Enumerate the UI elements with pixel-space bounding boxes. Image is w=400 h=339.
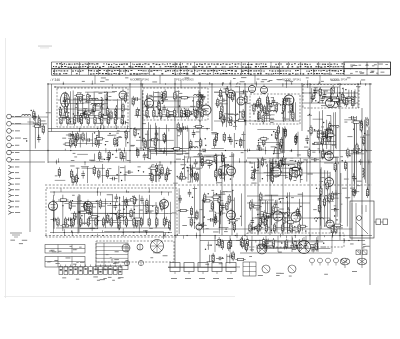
resistor R98 (321, 136, 323, 146)
wire (339, 84, 341, 240)
HT supply bus (48, 83, 372, 85)
tube V13 audio out (84, 200, 93, 211)
capacitor C25 (179, 127, 183, 135)
resistor R2 (33, 125, 43, 127)
resistor R215 (353, 187, 355, 197)
resistor R217 (360, 122, 362, 132)
parts table C (96, 243, 128, 270)
resistor R41 (163, 92, 165, 102)
resistor R76 (258, 97, 260, 107)
value labels (304, 131, 336, 150)
ground tag (10, 233, 22, 237)
capacitor C18 (144, 105, 152, 109)
capacitor C56 (66, 218, 74, 222)
wire (244, 84, 246, 235)
junction dots (78, 170, 171, 181)
wire (159, 75, 161, 84)
capacitor C53 (219, 172, 227, 176)
resistor R175 (251, 206, 261, 208)
capacitor C100 (322, 134, 330, 138)
dashed wire (45, 235, 175, 237)
fuse F2 (363, 250, 368, 255)
capacitor C30 (272, 97, 276, 105)
resistor R254 (148, 217, 150, 227)
plug pin arrows (8, 165, 20, 214)
resistor R155 (228, 194, 230, 204)
capacitor C48 (125, 170, 133, 174)
resistor R276 (177, 177, 187, 179)
resistor R290 (196, 210, 198, 220)
wires (179, 186, 196, 234)
resistor R247 (95, 217, 97, 227)
resistor R147 (132, 218, 142, 220)
resistor R33 (174, 91, 176, 101)
resistor R13 (82, 112, 92, 114)
capacitor C20 (197, 94, 205, 98)
capacitor C19 (201, 94, 205, 102)
tube V19 horiz osc (273, 209, 283, 221)
mains socket P2 (357, 258, 367, 268)
resistor R153 (211, 196, 221, 198)
wires (136, 122, 190, 159)
resistor R102 (328, 127, 330, 137)
resistor R284 (215, 132, 217, 142)
wires (344, 116, 369, 195)
capacitor C42 (323, 151, 331, 155)
resistor R164 (300, 167, 302, 177)
tube V6 detector (237, 95, 245, 105)
junction dots (349, 129, 365, 180)
bus taps (79, 125, 208, 133)
capacitor C99 (228, 134, 232, 142)
resistor R275 (148, 167, 158, 169)
resistor R128 (136, 218, 138, 228)
inductor L11 (162, 95, 164, 104)
resistor R140 (146, 204, 148, 214)
wires (320, 157, 347, 231)
inductor L2 (106, 92, 108, 101)
capacitor C21 (155, 130, 159, 138)
oscillator shield box (96, 241, 174, 262)
value labels (91, 157, 131, 162)
capacitor C22 (180, 126, 188, 130)
resistor R133 (161, 201, 163, 211)
svg-text:MODEL 3P34: MODEL 3P34 (330, 78, 348, 82)
inductor L9 (194, 94, 203, 95)
wire (56, 227, 170, 229)
wire (309, 84, 311, 240)
resistor R212 (232, 251, 234, 261)
resistor R211 (235, 258, 245, 260)
resistor R72 (283, 100, 285, 110)
resistor R192 (318, 203, 320, 213)
bus taps (56, 158, 370, 165)
resistor R252 (133, 217, 135, 227)
resistor R233 (146, 108, 148, 118)
capacitor C92 (348, 116, 356, 120)
wire (211, 84, 213, 131)
resistor R251 (125, 217, 127, 227)
wire (58, 117, 120, 119)
capacitor C38 (313, 88, 317, 96)
capacitor C93 (133, 97, 141, 101)
junction dots (138, 109, 140, 134)
resistor R24 (95, 137, 97, 147)
paper edge left (5, 38, 7, 298)
resistor R77 (284, 97, 286, 107)
capacitor C10 (100, 104, 104, 112)
wire (29, 118, 31, 232)
wire (8, 150, 45, 152)
wire (50, 191, 172, 193)
resistor R142 (69, 200, 71, 210)
fuse F1 (356, 250, 361, 255)
resistor R195 (335, 224, 337, 234)
socket S2 (288, 265, 296, 273)
resistor R159 (211, 201, 213, 211)
wires (257, 127, 298, 159)
resistor R51 (154, 137, 156, 147)
resistor R28 (76, 132, 78, 142)
resistor R172 (261, 157, 263, 167)
resistor R244 (72, 217, 74, 227)
resistor R245 (80, 217, 82, 227)
resistor R180 (259, 217, 261, 227)
resistor R266 (268, 103, 270, 113)
capacitor C31 (251, 103, 259, 107)
wire (221, 152, 223, 235)
value labels (203, 190, 240, 233)
bus taps (92, 232, 333, 239)
resistor R58 (245, 94, 247, 104)
resistor R124 (194, 171, 196, 181)
resistor R95 (337, 95, 339, 105)
wire (11, 116, 48, 118)
svg-text:MODEL SP340: MODEL SP340 (130, 78, 149, 82)
resistor R79 (277, 125, 279, 135)
capacitor C47 (81, 171, 85, 179)
value labels (55, 164, 160, 179)
wires (207, 254, 230, 264)
resistor R104 (310, 125, 312, 135)
resistor R169 (283, 156, 285, 166)
resistor R239 (187, 108, 189, 118)
parts table B (45, 257, 85, 268)
resistor R203 (246, 238, 248, 248)
resistor R178 (297, 225, 307, 227)
inductor L16 (268, 110, 277, 112)
resistor R84 (280, 137, 282, 147)
detector shield box (250, 94, 300, 124)
resistor R136 (71, 218, 73, 228)
capacitor C50 (222, 164, 230, 168)
capacitor C81 (311, 158, 319, 162)
wire (48, 128, 210, 130)
capacitor C66 (217, 211, 225, 215)
resistor R167 (291, 168, 301, 170)
power labels (350, 244, 370, 249)
resistor R191 (328, 193, 330, 203)
wire (214, 120, 300, 122)
resistor R89 (343, 95, 345, 105)
wire (199, 82, 201, 267)
resistor R163 (295, 169, 297, 179)
resistor R42 (197, 109, 207, 111)
capacitor C54 (115, 194, 119, 202)
resistor R186 (260, 192, 262, 202)
value labels (218, 86, 250, 127)
header tiny labels (82, 77, 365, 82)
wire (8, 161, 45, 163)
resistor R15 (94, 104, 104, 106)
capacitor C28 (228, 118, 232, 126)
value labels (182, 188, 202, 226)
value labels (205, 253, 252, 265)
resistor R223 (60, 115, 62, 125)
wire (168, 266, 240, 268)
resistor R227 (87, 115, 89, 125)
tube V12 audio (49, 200, 58, 211)
resistor R258 (257, 223, 259, 233)
resistor R18 (99, 111, 101, 121)
capacitor C2 (37, 135, 41, 143)
tube V16 (227, 209, 236, 220)
capacitor C98 (229, 137, 233, 145)
capacitor C52 (194, 159, 198, 167)
resistor R268 (282, 103, 284, 113)
value labels (62, 130, 122, 149)
resistor R282 (240, 137, 242, 147)
resistor R206 (221, 240, 223, 250)
capacitor C49 (149, 170, 153, 178)
resistor R161 (271, 173, 273, 183)
resistor R47 (190, 140, 192, 150)
resistor R259 (265, 223, 267, 233)
inductor L26 (215, 212, 217, 221)
resistor R152 (218, 194, 220, 204)
resistor R201 (240, 237, 242, 247)
capacitor C82 (290, 244, 298, 248)
capacitor C90 (353, 151, 361, 155)
wire (174, 78, 176, 267)
capacitor C17 (165, 114, 173, 118)
bus taps (65, 147, 367, 155)
junction dots (203, 190, 242, 230)
inductor L21 (330, 93, 332, 102)
wire (55, 86, 340, 88)
capacitor C9 (62, 113, 66, 121)
resistor R240 (194, 108, 196, 118)
resistor R73 (270, 103, 280, 105)
wires (313, 110, 337, 159)
resistor R113 (75, 174, 77, 184)
inductor L6 (115, 109, 117, 118)
resistor R17 (64, 104, 66, 114)
resistor R105 (322, 149, 324, 159)
resistor R85 (284, 128, 286, 138)
resistor R277 (180, 171, 182, 181)
resistor R287 (326, 134, 336, 136)
junction dots (307, 114, 331, 144)
resistor R235 (160, 108, 162, 118)
tube V1 tuner triode (61, 93, 70, 108)
inductor L25 (118, 217, 127, 219)
junction dots (316, 160, 343, 227)
junction dots (26, 110, 32, 142)
capacitor C89 (352, 173, 356, 181)
resistor R120 (190, 168, 192, 178)
inductor L28 (279, 212, 288, 214)
resistor R280 (120, 150, 122, 160)
junction dots (217, 133, 237, 144)
capacitor C32 (265, 111, 269, 119)
resistor R264 (253, 103, 255, 113)
resistor R242 (57, 217, 59, 227)
resistor R59 (226, 86, 228, 96)
wires (155, 165, 192, 183)
resistor R106 (98, 169, 100, 179)
value labels (257, 97, 292, 123)
resistor R149 (58, 199, 68, 201)
resistor R11 (59, 107, 61, 117)
capacitor C73 (250, 227, 258, 231)
resistor R210 (245, 242, 247, 252)
power transformer block (350, 201, 374, 238)
resistor R194 (334, 162, 336, 172)
resistor R21 (74, 94, 84, 96)
wires (312, 87, 355, 106)
resistor R143 (85, 201, 87, 211)
value labels (211, 132, 245, 141)
preset dial P2 (137, 244, 143, 250)
wires (27, 113, 38, 148)
inductor L10 (184, 108, 186, 117)
resistor R205 (285, 239, 287, 249)
resistor R139 (125, 197, 127, 207)
resistor R78 (262, 114, 264, 124)
resistor R65 (222, 114, 224, 124)
wire (319, 150, 321, 240)
inductor L3 (101, 97, 103, 106)
resistor R67 (217, 98, 219, 108)
resistor R117 (221, 153, 223, 163)
resistor R111 (93, 165, 95, 175)
resistor R278 (108, 150, 110, 160)
junction dots (104, 154, 114, 160)
resistor R30 (82, 132, 84, 142)
resistor R137 (130, 208, 132, 218)
junction dots (219, 99, 244, 123)
inductor L27 (257, 159, 259, 168)
tube V22 HV rect (326, 218, 334, 228)
resistor R154 (220, 203, 222, 213)
socket S1 (262, 265, 270, 273)
resistor R145 (89, 216, 99, 218)
junction dots (182, 164, 231, 180)
resistor R281 (223, 132, 225, 142)
resistor R108 (70, 169, 72, 179)
resistor R38 (195, 109, 205, 111)
resistor R118 (204, 160, 214, 162)
deflection shield box (247, 233, 344, 247)
resistor R289 (190, 206, 192, 216)
capacitor C62 (165, 217, 169, 225)
resistor R222 (362, 135, 364, 145)
control switch bank (59, 265, 122, 275)
wires (53, 194, 172, 234)
resistor R100 (308, 148, 310, 158)
capacitor C77 (264, 215, 272, 219)
resistor R249 (110, 217, 112, 227)
inductor L15 (282, 99, 284, 108)
wire (369, 84, 371, 285)
resistor R232 (121, 115, 123, 125)
resistor R107 (151, 173, 153, 183)
resistor R80 (279, 141, 281, 151)
resistor R257 (249, 223, 251, 233)
resistor R224 (67, 115, 69, 125)
wire (146, 106, 206, 108)
resistor R127 (168, 220, 170, 230)
resistor R62 (242, 109, 244, 119)
resistor R274 (161, 166, 163, 176)
resistor R216 (360, 120, 362, 130)
tube V17 vert osc (271, 165, 281, 177)
inductor L12 (161, 92, 163, 101)
resistor R26 (70, 138, 72, 148)
capacitor C13 (74, 133, 78, 141)
capacitor C95 (189, 173, 197, 177)
inductor L8 (160, 110, 162, 119)
sound IF shield box (303, 85, 359, 109)
capacitor C35 (283, 126, 287, 134)
resistor R44 (186, 108, 188, 118)
wires (77, 152, 126, 161)
resistor R255 (156, 217, 158, 227)
junction dots (205, 241, 325, 250)
value labels (344, 119, 369, 198)
wires (252, 192, 303, 234)
bus taps (54, 188, 169, 196)
resistor R119 (196, 172, 198, 182)
resistor R226 (80, 115, 82, 125)
resistor R171 (279, 159, 281, 169)
capacitor C3 (91, 107, 95, 115)
capacitor C44 (321, 133, 325, 141)
resistor R228 (94, 115, 96, 125)
tube V7 (249, 84, 256, 93)
resistor R83 (263, 137, 265, 147)
resistor R229 (101, 115, 103, 125)
resistor R114 (106, 168, 108, 178)
capacitor C39 (323, 91, 327, 99)
resistor R5 (101, 116, 111, 118)
tube V21 damper (325, 176, 334, 187)
capacitor C1 (33, 113, 37, 121)
tuning dial with spokes (151, 240, 164, 253)
resistor R243 (64, 217, 66, 227)
resistor R12 (107, 106, 109, 116)
resistor R122 (219, 167, 221, 177)
resistor R34 (158, 100, 160, 110)
wire (58, 108, 128, 110)
wires (203, 190, 242, 233)
wire (48, 161, 372, 163)
wire (240, 252, 332, 254)
wire (146, 96, 206, 98)
wire (357, 84, 359, 108)
deflection coil L20 (257, 244, 267, 254)
